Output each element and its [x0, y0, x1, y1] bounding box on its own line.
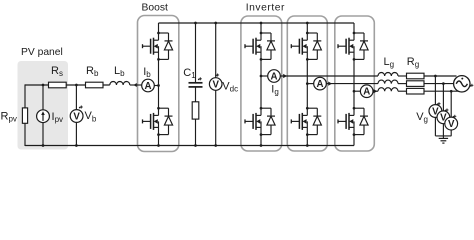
wire: phase b to grid source [424, 83, 454, 85]
wire: Vg phase a meter to ground bus [434, 117, 436, 135]
wire: Lb to Ib ammeter [130, 84, 142, 86]
polarity mark grid source [470, 85, 472, 87]
polarity mark Vdc [215, 75, 217, 77]
wire: damping resistor to rail [195, 119, 197, 145]
node: Vb top junction [75, 84, 78, 87]
wire: Ipv branch top [42, 85, 44, 110]
wire: phase c to grid source [424, 90, 458, 92]
wire: phase b ammeter to grid filter [326, 83, 378, 85]
svg-text:Inverter: Inverter [246, 3, 285, 14]
node: boost bottom rail junction [157, 144, 160, 147]
wire: phase c drop to Vg meter [450, 91, 452, 117]
wire: Ipv branch bottom [42, 123, 44, 146]
polarity mark C1 [198, 79, 200, 81]
node: leg 1 phase-a junction [260, 75, 263, 78]
resistor Rg phase b [407, 81, 425, 87]
ammeter Ig phase c [360, 85, 373, 98]
wire: boost midpoint vertical [158, 59, 160, 108]
current direction arrow phase a [283, 74, 287, 78]
polarity mark Vg phase b [445, 110, 447, 112]
voltmeter Vg phase c [445, 117, 458, 130]
node: boost midpoint junction [157, 84, 160, 87]
wire: Vdc branch bottom [215, 90, 217, 145]
polarity mark Vg phase a [437, 104, 439, 106]
resistor Rs [49, 82, 67, 88]
svg-text:PV panel: PV panel [21, 47, 63, 58]
ground [439, 137, 448, 139]
current direction arrow phase c [374, 89, 378, 93]
resistor Rg phase a [407, 73, 425, 79]
node: Ipv top junction [42, 84, 45, 87]
wire: PV top wire [25, 84, 110, 86]
wire: phase a drop to Vg meter [434, 76, 436, 105]
transistor-diode switch leg 2 low side [307, 107, 317, 109]
inverter leg 1 box [241, 16, 282, 151]
resistor Rg phase c [407, 88, 425, 94]
inductor Lg phase b [378, 80, 398, 84]
node: leg 2 top rail junction [306, 22, 309, 25]
resistor Rpv [22, 108, 27, 123]
svg-text:Boost: Boost [142, 3, 168, 14]
voltmeter Vdc [209, 78, 222, 91]
node: leg 1 top rail junction [260, 22, 263, 25]
wire: phase b Lg to Rg [398, 83, 407, 85]
capacitor C1 [189, 82, 203, 84]
node: C1 bottom rail junction [194, 144, 197, 147]
node: leg 2 bottom rail junction [306, 144, 309, 147]
polarity mark Vb [79, 107, 81, 109]
node: Vdc top rail junction [214, 22, 217, 25]
wire: Vg ground bus [435, 135, 451, 137]
transistor-diode switch boost high side [159, 32, 169, 34]
node: Vb bottom junction [75, 144, 78, 147]
PV panel shaded box [18, 61, 69, 150]
wire: Rpv branch bottom [24, 123, 26, 146]
wire: boost leg bottom drop [158, 135, 160, 146]
wire: phase c ammeter to grid filter [373, 90, 378, 92]
wire: C1 to damping resistor [195, 87, 197, 102]
current source Ipv [37, 110, 50, 123]
wire: phase a ammeter to grid filter [280, 75, 378, 77]
node: phase a Vg tap [434, 75, 437, 78]
wire: phase c Lg to Rg [398, 90, 407, 92]
wire: Rpv branch top [24, 84, 26, 108]
wire: Vdc branch top [215, 23, 217, 78]
ammeter Ig phase a [268, 70, 281, 83]
node: leg 1 bottom rail junction [260, 144, 263, 147]
wire: leg 1 bottom drop [260, 135, 262, 146]
wire: ground stub [442, 136, 444, 139]
node: phase c Vg tap [450, 90, 453, 93]
wire: phase a leg to ammeter [261, 75, 268, 77]
svg-text:V: V [448, 119, 455, 130]
wire: C1 branch top [195, 23, 197, 82]
transistor-diode switch boost low side [159, 107, 169, 109]
wire: phase b drop to Vg meter [442, 84, 444, 111]
inverter leg 3 box [335, 16, 375, 151]
svg-text:A: A [145, 81, 152, 92]
voltmeter Vg phase a [429, 105, 442, 118]
wire: inverter leg 3 top drop [353, 23, 355, 33]
voltmeter Vb [70, 110, 83, 123]
wire: inverter leg 2 top drop [306, 23, 308, 33]
current direction arrow Ib [133, 83, 136, 87]
wire: Vg phase c meter to ground bus [450, 130, 452, 136]
transistor-diode switch leg 1 high side [261, 32, 271, 34]
damping resistor [192, 102, 199, 119]
transistor-diode switch leg 1 low side [261, 107, 271, 109]
wire: boost leg top drop [158, 23, 160, 33]
wire: leg 3 midpoint vertical [353, 59, 355, 108]
wire: phase a Lg to Rg [398, 75, 407, 77]
wire: inverter leg 1 top drop [260, 23, 262, 33]
wire: Vb branch bottom [75, 123, 77, 146]
wire: phase a to grid source [424, 75, 457, 77]
current direction arrow phase b [328, 82, 332, 86]
wire: phase b leg to ammeter [307, 83, 313, 85]
wire: Vg phase b meter to ground bus [442, 124, 444, 136]
svg-text:V: V [73, 111, 80, 122]
node: leg 3 phase-c junction [353, 90, 356, 93]
wire: Ib ammeter to boost midpoint [154, 85, 158, 87]
svg-text:A: A [363, 87, 370, 98]
node: Vdc bottom rail junction [214, 144, 217, 147]
inductor Lb [110, 82, 130, 86]
polarity dot grid source [461, 78, 463, 80]
node: Ipv bottom junction [42, 144, 45, 147]
transistor-diode switch leg 2 high side [307, 32, 317, 34]
ammeter Ig phase b [314, 77, 327, 90]
transistor-diode switch leg 3 low side [354, 107, 364, 109]
wire: leg 2 bottom drop [306, 135, 308, 146]
svg-text:A: A [317, 79, 324, 90]
resistor Rb [86, 82, 104, 88]
wire: Vb branch top [75, 85, 77, 110]
inverter leg 2 box [287, 16, 327, 151]
node: C1 top rail junction [194, 22, 197, 25]
svg-text:V: V [212, 79, 219, 90]
svg-text:A: A [271, 71, 278, 82]
node: phase b Vg tap [442, 82, 445, 85]
grid voltage source [454, 76, 470, 92]
wire: top DC rail [159, 22, 355, 24]
transistor-diode switch leg 3 high side [354, 32, 364, 34]
wire: leg 1 midpoint vertical [260, 59, 262, 108]
wire: leg 3 bottom drop [353, 135, 355, 146]
inductor Lg phase a [378, 72, 398, 76]
wire: bottom return rail [25, 145, 354, 147]
node: leg 2 phase-b junction [306, 82, 309, 85]
boost converter box [138, 16, 179, 152]
inductor Lg phase c [378, 88, 398, 92]
wire: phase c leg to ammeter [354, 90, 360, 92]
wire: leg 2 midpoint vertical [306, 59, 308, 108]
ammeter Ib [142, 79, 155, 92]
polarity mark Vg phase c [452, 116, 454, 118]
voltmeter Vg phase b [437, 111, 450, 124]
